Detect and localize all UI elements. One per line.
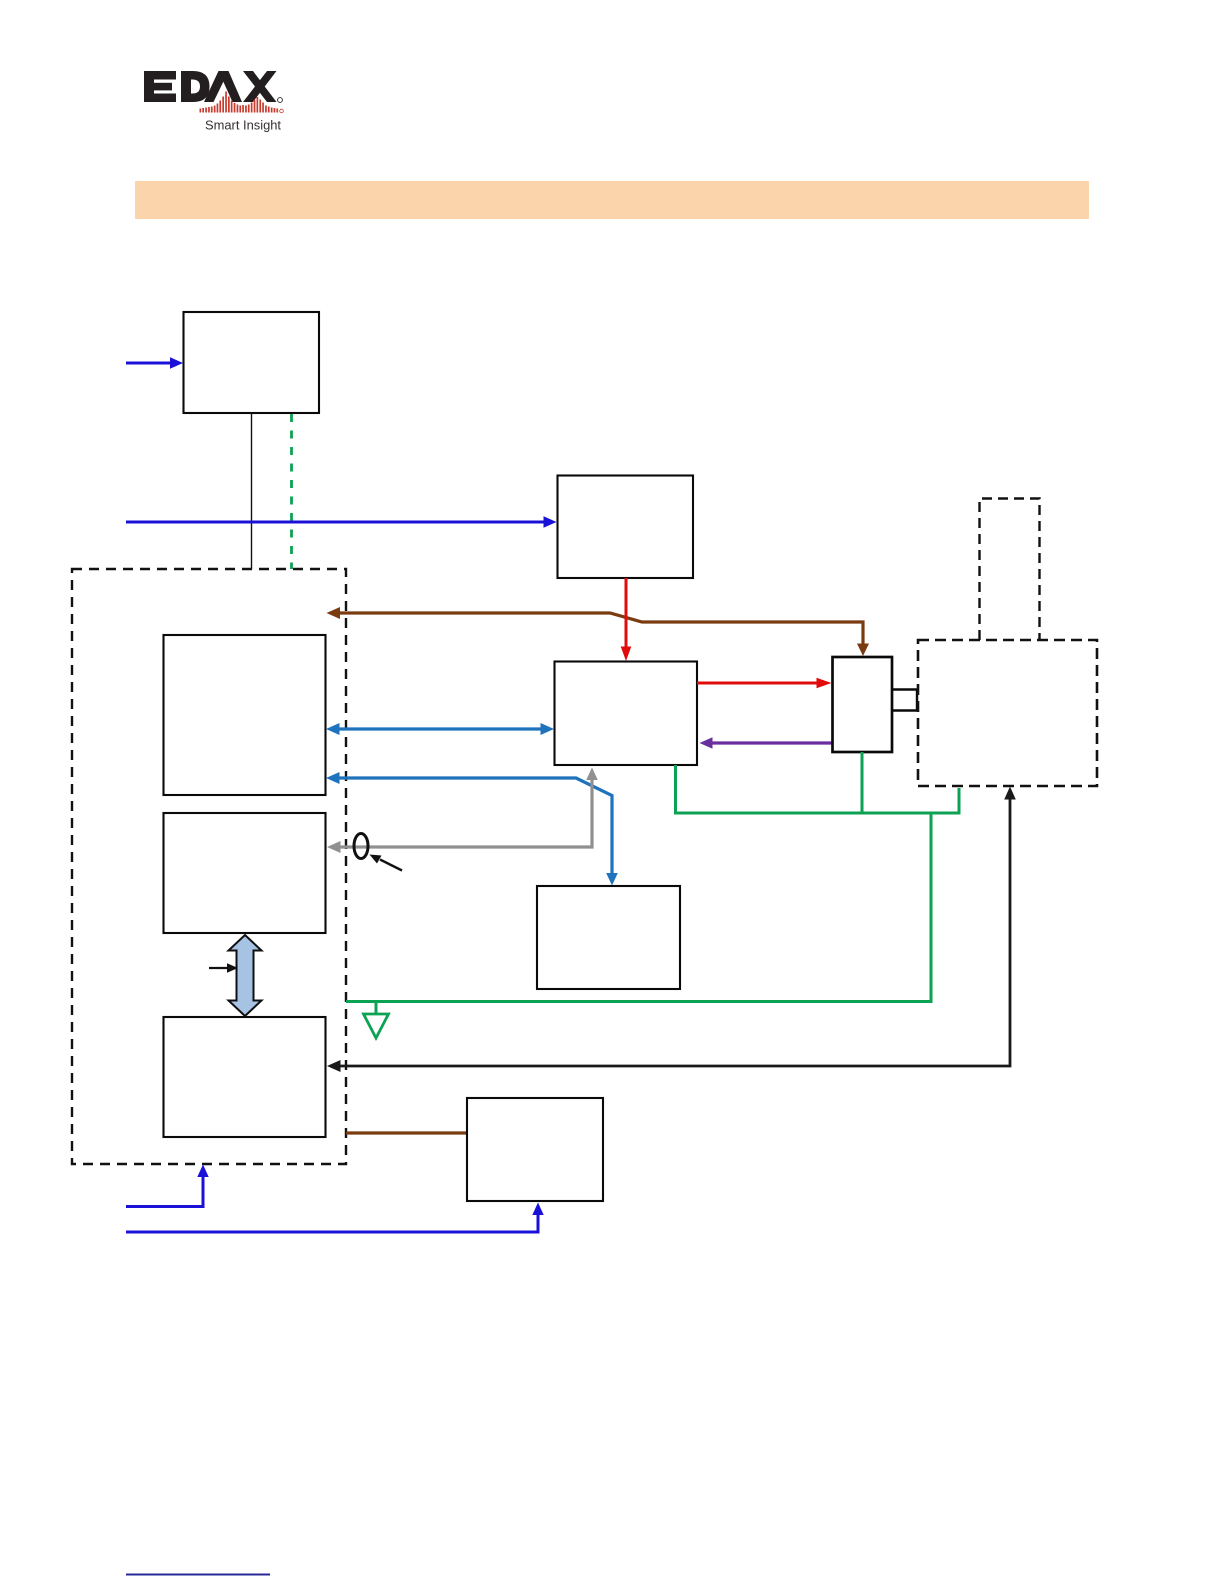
green net: box F drop: [346, 752, 959, 1013]
dashed box I (narrow, above H): [980, 499, 1040, 641]
thin black line from box A to dashed enclosure: [251, 413, 253, 569]
box G (small): [833, 657, 893, 752]
steel blue arrow from junction down to box J and left into box C: [326, 772, 618, 886]
light blue block double-arrow between D and E: [229, 935, 262, 1016]
green net: stub for open arrow: [375, 1002, 378, 1013]
EDAX logo letter D: [181, 71, 210, 102]
small black arrow pointing at block arrow: [209, 963, 238, 973]
dashed box H (right): [918, 640, 1097, 786]
brown link from enclosure to box K: [346, 1131, 467, 1134]
blue arrow up into box K bottom: [126, 1203, 544, 1233]
box F (center): [555, 662, 698, 766]
blue arrow into box A: [126, 357, 183, 368]
green net: riser to dashed box H: [958, 788, 961, 815]
box J: [537, 886, 680, 989]
red arrow from box B down to box F: [621, 578, 632, 661]
red arrow from box F to box G: [697, 678, 832, 689]
brown arrow from right into enclosure: [327, 607, 870, 656]
green open arrowhead: [364, 1014, 389, 1038]
black ellipse marker on gray line: [354, 834, 368, 859]
box C inside enclosure: [164, 635, 326, 795]
box K: [467, 1098, 603, 1201]
dashed enclosure (large): [72, 569, 346, 1164]
EDAX logo letter E: [144, 71, 176, 102]
box D inside enclosure: [164, 813, 326, 933]
black L arrow from dashed box H down-left into box E: [327, 787, 1016, 1073]
box E inside enclosure: [164, 1017, 326, 1137]
peach title banner: [135, 181, 1089, 219]
green dashed line from box A to dashed enclosure: [290, 414, 293, 569]
connector stub between box G and dashed box H: [892, 688, 918, 691]
gray arrow from box F bottom to box D: [327, 768, 598, 854]
green net: box G drop: [861, 752, 864, 813]
EDAX logo small registered mark right of bars: [280, 109, 284, 113]
purple arrow from box G to box F: [700, 737, 833, 749]
green net: drop toward bottom bus: [930, 813, 933, 1002]
EDAX logo letter A: [204, 71, 229, 102]
blue arrow into box B: [126, 516, 557, 527]
svg-text:Smart Insight: Smart Insight: [205, 119, 282, 133]
navy footnote rule: [126, 1574, 270, 1576]
black diagonal arrow pointing to ellipse: [370, 855, 403, 871]
box A top-left: [184, 312, 320, 413]
EDAX logo red spectrum bars: [200, 92, 279, 113]
EDAX logo registered mark: [278, 98, 283, 103]
green net: horizontal bus: [674, 812, 959, 815]
blue arrow up into enclosure bottom: [126, 1165, 209, 1207]
EDAX logo letter X: [243, 71, 277, 102]
steel blue double-headed arrow between box C and box F: [326, 723, 554, 735]
green net: bottom bus to enclosure: [346, 1000, 933, 1003]
box B: [558, 476, 694, 579]
